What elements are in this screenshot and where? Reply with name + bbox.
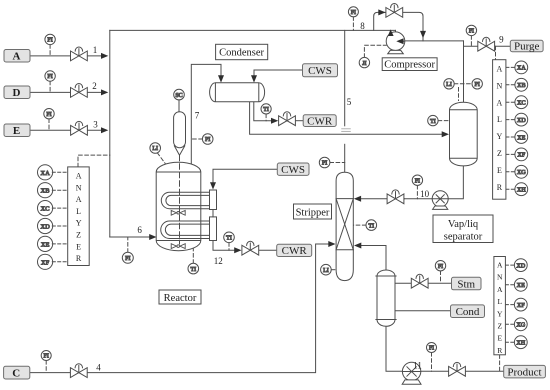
instrument FI stream 6 — [122, 252, 133, 263]
analyzer tap XC feed — [38, 201, 53, 216]
stream number labels — [92, 21, 504, 373]
svg-text:TI: TI — [368, 223, 374, 229]
svg-text:XA: XA — [40, 170, 50, 177]
svg-text:XF: XF — [517, 302, 525, 309]
svg-text:XB: XB — [41, 188, 50, 195]
wire separator overhead riser — [463, 41, 465, 103]
svg-text:XD: XD — [40, 224, 50, 231]
label box CWR condenser — [303, 115, 336, 127]
label box Purge — [510, 40, 543, 51]
svg-text:TI: TI — [430, 119, 436, 125]
arrow into compressor suction (at centre) — [396, 38, 403, 44]
valve product stream 11 — [449, 362, 466, 376]
wire CWR line to label — [296, 120, 304, 122]
analyzer tap XF product — [514, 298, 527, 311]
svg-text:Compressor: Compressor — [384, 60, 435, 71]
arrow bypass down leg — [420, 31, 426, 38]
wire stream 10 into stripper — [359, 198, 404, 200]
label box CWR reactor — [277, 244, 312, 256]
pump product stream 11 — [402, 362, 421, 384]
svg-text:N: N — [497, 273, 503, 282]
dashed feed analyzer sample line — [78, 155, 110, 167]
svg-text:Cond: Cond — [456, 306, 480, 318]
svg-text:N: N — [497, 81, 503, 90]
dashed LI tap reactor — [157, 153, 165, 164]
dashed FI tap A feed — [49, 45, 51, 56]
stripper packing X — [336, 199, 353, 250]
svg-text:Y: Y — [497, 309, 503, 318]
label box Cond — [451, 305, 485, 318]
valve compressor bypass — [386, 4, 403, 18]
instrument PI reactor — [202, 134, 213, 145]
svg-text:LI: LI — [446, 82, 452, 88]
svg-text:C: C — [12, 367, 20, 379]
instrument PI separator — [472, 79, 482, 89]
svg-text:PI: PI — [205, 137, 210, 143]
reactor cooling coil lower outer — [161, 221, 210, 239]
wire reactor vapour line stream 7 — [191, 64, 221, 164]
wire stream 6 reactor feed — [110, 236, 151, 238]
arrow bypass into valve — [378, 9, 385, 15]
reactor cooling coil upper outer — [161, 192, 209, 208]
svg-text:XF: XF — [41, 259, 50, 266]
arrow stream 2 into header — [101, 89, 108, 95]
svg-text:FI: FI — [47, 38, 52, 44]
wire D feed line stream 2 — [30, 91, 103, 93]
instrument circles — [41, 7, 482, 361]
svg-text:R: R — [76, 254, 82, 263]
feed analyzer XA-XF circles — [38, 165, 53, 270]
analyzer tap XE feed — [38, 236, 53, 251]
reactor cooling coil upper inner — [166, 195, 210, 205]
analyzer tap XE purge — [515, 131, 528, 144]
instrument FI product — [427, 343, 437, 353]
wire feed header vertical — [109, 30, 111, 237]
svg-text:7: 7 — [195, 111, 200, 121]
wire condenser CWR outlet — [254, 102, 272, 121]
dashed TI tap separator — [438, 120, 449, 122]
svg-text:Z: Z — [497, 322, 502, 331]
svg-text:FI: FI — [44, 354, 49, 360]
instrument LI stripper — [321, 264, 332, 275]
compressor — [386, 32, 405, 54]
dashed FI tap stream 6 — [127, 237, 129, 252]
wire A feed line stream 1 — [30, 55, 103, 57]
svg-text:CWS: CWS — [281, 164, 305, 176]
svg-text:3: 3 — [93, 120, 98, 130]
svg-text:E: E — [76, 242, 81, 251]
instrument TI reactor coil CWR — [224, 232, 235, 243]
arrow condenser CWR — [271, 118, 278, 124]
label box Stm — [452, 277, 482, 290]
svg-text:XH: XH — [516, 340, 525, 347]
label box CWS condenser — [303, 64, 338, 77]
wire compressor bypass loop — [374, 12, 423, 41]
valve stream 1 — [71, 47, 88, 61]
white equipment label boxes — [159, 44, 493, 304]
reactor impeller upper — [171, 210, 185, 215]
svg-text:Z: Z — [76, 231, 81, 240]
instrument PI stripper — [319, 157, 330, 168]
label box CWS reactor — [277, 163, 309, 175]
reactor agitator motor — [174, 112, 186, 148]
analyzer tap XF feed — [38, 254, 53, 269]
svg-text:Z: Z — [497, 149, 502, 158]
analyzer tap XA purge — [515, 61, 528, 74]
product analyzer box — [494, 257, 506, 355]
wire stream 10 pump to valve — [387, 198, 432, 200]
svg-text:separator: separator — [444, 231, 483, 242]
arrow stream 1 into header — [101, 53, 108, 59]
feed box D — [4, 86, 30, 99]
svg-text:XB: XB — [517, 82, 526, 89]
svg-text:A: A — [497, 98, 503, 107]
analyzer tap XD purge — [515, 113, 528, 126]
reactor coil nozzle box upper — [210, 190, 217, 210]
wire reboiler condensate line — [395, 310, 451, 312]
instrument SC reactor agitator — [174, 89, 185, 100]
instrument FI C feed — [41, 351, 51, 361]
purge analyzer XA-XH circles — [515, 61, 528, 196]
svg-text:CWR: CWR — [282, 245, 308, 257]
dashed FI tap D feed — [49, 81, 51, 92]
wire product valve to label — [466, 370, 504, 372]
arrow CWS into condenser — [251, 75, 257, 82]
dashed LI tap stripper — [331, 269, 336, 271]
arrow condensate into separator — [442, 131, 449, 137]
valve stream 10 — [387, 190, 404, 204]
arrow vapour into condenser — [218, 75, 224, 82]
purge analyzer box — [493, 60, 506, 200]
dashed purge analyzer sample line — [495, 46, 497, 60]
instrument TI condenser CWR — [261, 104, 271, 114]
svg-text:9: 9 — [499, 35, 504, 45]
svg-text:N: N — [76, 183, 82, 192]
svg-text:R: R — [497, 183, 503, 192]
svg-text:FI: FI — [47, 74, 52, 80]
analyzer tap XC purge — [515, 96, 528, 109]
svg-text:LI: LI — [152, 146, 158, 152]
dashed FI tap product — [431, 353, 433, 372]
svg-text:CWR: CWR — [307, 115, 333, 127]
analyzer tap XG product — [514, 318, 527, 331]
svg-text:Purge: Purge — [514, 41, 540, 53]
svg-text:4: 4 — [96, 363, 101, 373]
dashed TI tap stripper — [353, 224, 366, 226]
wire condenser outlet to separator — [250, 102, 443, 134]
label box Compressor — [382, 58, 437, 71]
svg-text:E: E — [497, 166, 502, 175]
wire reactor CWR to label — [259, 249, 277, 251]
stripper vessel — [336, 172, 353, 280]
svg-text:5: 5 — [347, 97, 352, 107]
instrument LI separator — [444, 79, 454, 89]
svg-text:E: E — [13, 125, 20, 137]
svg-text:XF: XF — [517, 152, 525, 159]
wire purge line stream 9 — [464, 45, 511, 47]
arrow compressor discharge up — [388, 29, 394, 36]
wire CWS line into condenser — [254, 70, 303, 75]
valve stream 3 — [71, 121, 88, 135]
instrument FI stream 1 — [45, 34, 55, 44]
stripper internal tray line upper — [336, 198, 353, 200]
instrument FI stream 8 — [348, 7, 358, 17]
svg-text:L: L — [497, 297, 502, 306]
wire stripper overhead riser stream 5 upper — [344, 30, 346, 125]
dashed links purge analyzer — [506, 67, 515, 189]
dashed links feed analyzer — [52, 172, 67, 261]
instrument TI stripper — [366, 220, 377, 231]
svg-text:TI: TI — [263, 107, 269, 113]
arrow stream 3 into header — [101, 127, 108, 133]
svg-text:L: L — [497, 115, 502, 124]
dashed TI tap reactor bottom — [192, 249, 194, 263]
wire separator liquid stream 10 — [448, 166, 463, 199]
analyzer tap XB purge — [515, 78, 528, 91]
svg-text:11: 11 — [413, 361, 422, 371]
wire compressor discharge stub — [395, 30, 397, 32]
pump separator bottoms — [432, 191, 448, 210]
valve condenser CWR — [279, 112, 296, 126]
analyzer tap XA feed — [38, 165, 53, 180]
svg-text:A: A — [497, 65, 503, 74]
svg-text:LI: LI — [323, 268, 329, 274]
svg-text:Stm: Stm — [457, 278, 475, 290]
reactor vessel — [156, 162, 201, 250]
wire compressor suction line — [404, 40, 464, 42]
feed analyzer box — [68, 167, 90, 266]
svg-text:JI: JI — [362, 61, 366, 67]
feed box E — [4, 124, 30, 137]
arrow reboiler return into stripper — [354, 243, 361, 249]
svg-text:TI: TI — [190, 267, 196, 273]
line break marks on stream 5 crossing — [342, 129, 351, 132]
dashed FI tap C feed — [45, 361, 47, 373]
svg-text:FI: FI — [415, 178, 420, 184]
condenser vessel — [210, 83, 265, 102]
svg-text:6: 6 — [137, 225, 142, 235]
svg-text:1: 1 — [93, 45, 98, 55]
instrument LI reactor — [150, 143, 161, 154]
valve steam — [411, 274, 428, 288]
analyzer tap XE product — [514, 278, 527, 291]
instrument FI steam — [435, 261, 445, 271]
analyzer tap XD product — [514, 259, 527, 272]
reactor nozzle connecting stub — [212, 210, 214, 217]
arrow stream 10 into stripper — [354, 196, 361, 202]
instrument FI stream 2 — [45, 71, 55, 81]
analyzer tap XG purge — [515, 165, 528, 178]
svg-text:SC: SC — [175, 93, 182, 99]
wire stripper overhead riser stream 5 lower — [344, 144, 346, 172]
dashed PI tap reactor vapour — [191, 138, 202, 140]
dashed LI PI taps separator top — [454, 83, 472, 85]
wire top recycle line stream 8 — [110, 29, 396, 31]
instrument TI reactor bottom — [188, 263, 199, 274]
label box Condenser — [216, 44, 268, 59]
svg-text:Vap/liq: Vap/liq — [448, 219, 479, 230]
analyzer tap XD feed — [38, 218, 53, 233]
svg-text:FI: FI — [438, 264, 443, 270]
analyzer tap XB feed — [38, 183, 53, 198]
instrument JI compressor — [359, 57, 369, 67]
analyzer tap XH product — [514, 336, 527, 349]
dashed FI tap stream 8 — [352, 17, 354, 31]
svg-text:PI: PI — [322, 161, 327, 167]
valve purge stream 9 — [478, 37, 495, 51]
arrow stream 4 into stripper — [328, 241, 335, 247]
svg-text:XE: XE — [517, 282, 525, 289]
dashed links product analyzer — [505, 265, 514, 342]
instrument FI stream 10 — [412, 175, 422, 185]
svg-text:Stripper: Stripper — [296, 207, 330, 218]
dashed TI tap condenser CWR — [265, 114, 267, 121]
arrow CWS into reactor coil — [210, 182, 216, 189]
wire reactor coil CWR outlet — [213, 241, 237, 251]
svg-text:XG: XG — [517, 169, 526, 176]
dashed PI tap stripper overhead — [330, 162, 345, 164]
svg-text:E: E — [497, 334, 502, 343]
svg-text:XE: XE — [41, 241, 50, 248]
svg-text:XE: XE — [517, 134, 525, 141]
wire product pump to valve — [420, 370, 449, 372]
arrows — [101, 9, 449, 253]
label box Vap/liq separator — [433, 215, 493, 243]
wire E feed line stream 3 — [30, 129, 103, 131]
label box Reactor — [159, 290, 201, 304]
svg-text:A: A — [13, 51, 21, 63]
reboiler vessel — [376, 270, 396, 326]
wire CWS line into reactor coil — [213, 169, 277, 184]
label box Stripper — [294, 204, 332, 219]
svg-text:10: 10 — [420, 189, 430, 199]
analyzer tap XH purge — [515, 183, 528, 196]
instrument FI stream 3 — [44, 109, 54, 119]
arrow reactor CWR — [234, 247, 241, 253]
svg-text:2: 2 — [92, 81, 97, 91]
svg-text:8: 8 — [360, 21, 365, 31]
valve stream 2 — [71, 84, 88, 98]
wire reboiler vapour return to stripper — [360, 246, 386, 271]
svg-text:XD: XD — [516, 262, 525, 269]
svg-text:XC: XC — [41, 206, 50, 213]
feed box C — [4, 366, 30, 379]
svg-text:FI: FI — [429, 346, 434, 352]
svg-text:Y: Y — [497, 132, 503, 141]
reactor agitator SC stem — [178, 100, 180, 112]
svg-text:FI: FI — [351, 10, 356, 16]
valve reactor CWR — [242, 241, 259, 255]
reactor impeller lower — [171, 244, 185, 249]
vap/liq separator vessel — [450, 102, 478, 166]
svg-text:A: A — [76, 172, 82, 181]
svg-text:FI: FI — [46, 112, 51, 118]
svg-text:CWS: CWS — [308, 65, 332, 77]
arrow stream 6 into reactor — [149, 234, 156, 240]
svg-text:12: 12 — [214, 256, 223, 266]
svg-text:D: D — [13, 87, 21, 99]
svg-text:Y: Y — [76, 219, 82, 228]
stripper internal tray line lower — [336, 249, 353, 251]
svg-text:XD: XD — [517, 117, 526, 124]
reactor cooling coil lower inner — [165, 224, 209, 235]
svg-text:L: L — [76, 207, 81, 216]
product analyzer XD-XH circles — [514, 259, 527, 349]
reactor agitator shaft — [179, 155, 181, 244]
feed box A — [4, 50, 30, 63]
dashed product analyzer sample line — [499, 355, 501, 372]
svg-text:Reactor: Reactor — [164, 293, 197, 304]
instrument FI purge — [466, 25, 476, 35]
wire product line stream 11 — [386, 326, 403, 371]
wire reboiler steam line — [395, 282, 452, 284]
svg-text:A: A — [76, 195, 82, 204]
svg-text:XC: XC — [517, 100, 526, 107]
svg-text:A: A — [497, 261, 503, 270]
dashed FI tap steam line — [440, 271, 442, 283]
svg-text:XH: XH — [517, 187, 526, 194]
dashed FI tap stream 10 — [416, 185, 418, 198]
svg-text:A: A — [497, 285, 503, 294]
label box Product — [504, 365, 546, 378]
analyzer tap XF purge — [515, 148, 528, 161]
dashed FI tap E feed — [48, 119, 50, 130]
wire C feed line stream 4 — [30, 244, 330, 373]
dashed TI tap reactor coil outlet — [228, 243, 230, 251]
svg-text:XA: XA — [517, 65, 526, 72]
svg-text:TI: TI — [226, 236, 232, 242]
dashed FI tap purge — [470, 36, 472, 47]
reactor coil nozzle box lower — [210, 217, 217, 241]
reactor agitator motor taper — [174, 146, 185, 155]
svg-text:Condenser: Condenser — [219, 48, 264, 59]
svg-text:PI: PI — [475, 82, 480, 88]
dashed JI link to compressor — [364, 45, 386, 57]
instrument TI separator — [428, 115, 438, 125]
svg-text:FI: FI — [125, 256, 130, 262]
valve stream 4 — [70, 364, 87, 378]
svg-text:XG: XG — [516, 322, 525, 329]
svg-text:Product: Product — [507, 366, 541, 378]
svg-text:FI: FI — [469, 29, 474, 35]
